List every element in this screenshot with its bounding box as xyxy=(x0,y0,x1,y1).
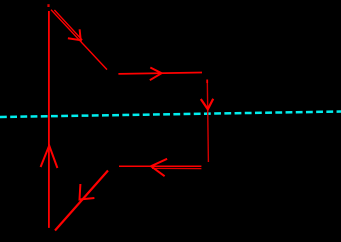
dashed axis (real axis) xyxy=(0,112,341,118)
contour upper diagonal edge xyxy=(51,10,107,70)
lower horizontal ghost line xyxy=(152,167,201,169)
arrow on lower diagonal (down-left) xyxy=(80,184,95,200)
right vertical top blob xyxy=(206,80,208,84)
contour left vertical edge xyxy=(48,11,50,228)
contour upper horizontal edge xyxy=(118,73,202,74)
contour right vertical edge xyxy=(207,80,208,163)
arrow on lower horizontal (left) xyxy=(151,159,167,176)
arrow on left vertical (up) xyxy=(41,146,58,169)
contour lower diagonal edge xyxy=(55,171,108,231)
arrow on upper diagonal (down-right) xyxy=(68,29,81,40)
contour lower horizontal edge xyxy=(119,165,201,167)
arrow on right vertical (down, at axis) xyxy=(201,99,213,110)
apex dot xyxy=(47,4,49,7)
arrow on upper horizontal (right) xyxy=(150,68,162,81)
upper diagonal ghost line xyxy=(54,10,82,40)
